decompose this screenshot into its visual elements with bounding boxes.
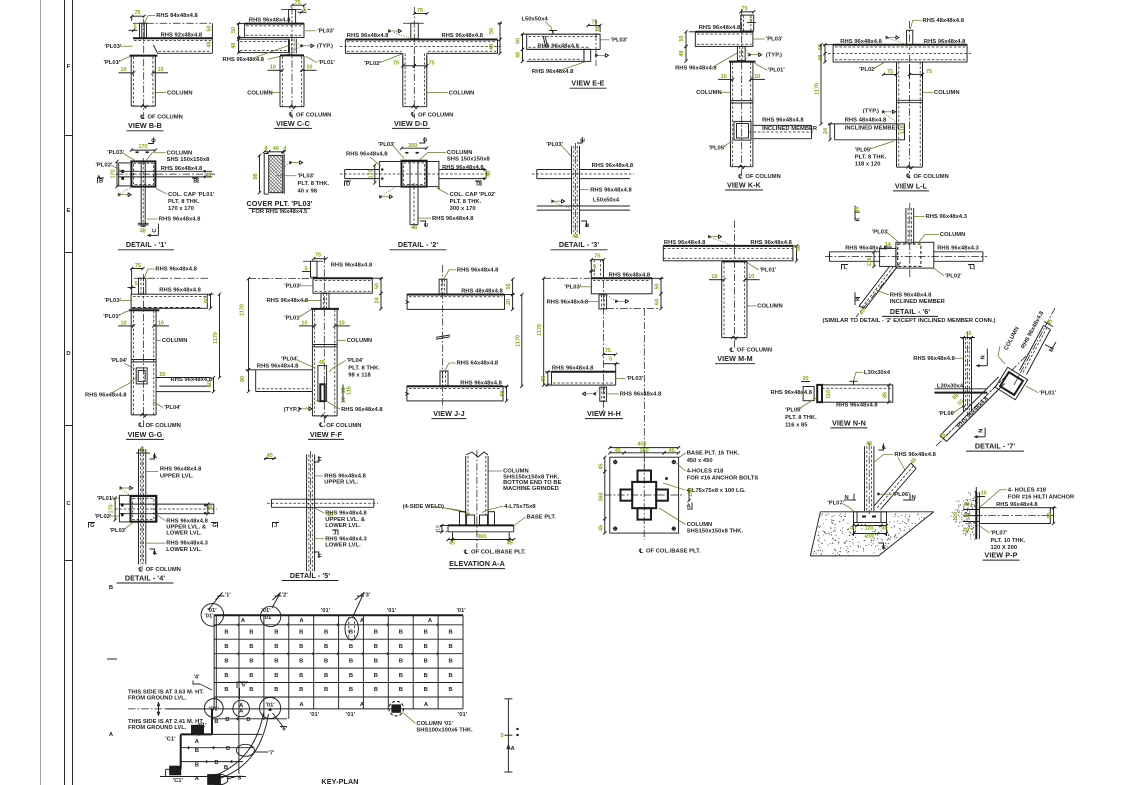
- svg-text:'PL02': 'PL02': [95, 514, 112, 520]
- view E-E centerline: [595, 20, 597, 66]
- svg-text:F: F: [153, 551, 159, 555]
- detail 1 left extension plate: [119, 163, 132, 186]
- view C-C column centerline: [291, 7, 293, 119]
- svg-text:75: 75: [741, 6, 747, 12]
- footing dims below: [853, 523, 855, 536]
- svg-text:98: 98: [500, 390, 506, 396]
- key plan internal horizontal lines: [214, 624, 463, 626]
- svg-text:B: B: [99, 178, 103, 184]
- detail 4 section flag G left: [89, 523, 96, 528]
- svg-text:'PL02': 'PL02': [96, 162, 113, 168]
- detail 4 section flag G right: [211, 523, 218, 528]
- view K-K stub between beam and cap: [737, 46, 745, 60]
- svg-text:OF COLUMN: OF COLUMN: [914, 174, 949, 180]
- svg-text:RHS 96x48x4.8: RHS 96x48x4.8: [432, 216, 474, 222]
- view G-G cap plate: [129, 309, 159, 311]
- svg-text:B: B: [349, 630, 353, 636]
- svg-text:RHS 96x48x4.8: RHS 96x48x4.8: [457, 268, 499, 274]
- svg-text:360: 360: [477, 534, 486, 540]
- detail 4 outer plate: [119, 495, 156, 522]
- svg-text:MACHINE GRINDED: MACHINE GRINDED: [503, 486, 559, 492]
- svg-text:LOWER LVL.: LOWER LVL.: [166, 531, 202, 537]
- svg-text:B: B: [299, 658, 303, 664]
- svg-text:'PL02': 'PL02': [945, 273, 962, 279]
- view C-C dim 5: [298, 11, 307, 13]
- footing flag P top: [879, 444, 884, 451]
- detail 1 beam to right: [155, 170, 212, 172]
- view C-C top beam RHS 96x48x4.8: [245, 24, 304, 38]
- detail 2 junction dots: [381, 168, 383, 170]
- view E-E upper beam: [527, 34, 600, 49]
- detail 2 vertical member through: [409, 161, 411, 187]
- view D-D purlin: [411, 23, 419, 39]
- view B-B beam bottom line: [158, 52, 213, 54]
- view E-E dim 75 top: [588, 24, 600, 26]
- svg-text:'PL05': 'PL05': [709, 146, 726, 152]
- plan dims 45 360 45 top: [610, 452, 624, 454]
- svg-text:H: H: [317, 457, 323, 461]
- svg-text:'PL03': 'PL03': [766, 37, 783, 43]
- view C-C beam hidden dashes: [246, 25, 303, 27]
- view B-B cap plate PL01: [130, 55, 158, 57]
- view C-C col stub between beams: [288, 39, 290, 54]
- view F-F column bottom break: [321, 414, 328, 418]
- view D-D dim 75 right below: [426, 56, 428, 68]
- view L-L dims 75 75 below beam: [896, 64, 898, 78]
- view M-M weld: [708, 235, 711, 238]
- view D-D weld: [388, 29, 391, 32]
- detail 3 vertical member: [571, 146, 573, 234]
- view M-M right dim 50: [793, 245, 799, 247]
- svg-text:RHS 96x48x4.8: RHS 96x48x4.8: [159, 217, 201, 223]
- svg-text:116 x 85: 116 x 85: [785, 422, 808, 428]
- border row tick y425: [65, 425, 73, 427]
- view M-M dim 10s: [709, 279, 724, 281]
- view D-D column centerline: [413, 7, 415, 119]
- svg-text:B: B: [299, 673, 303, 679]
- detail 2 beam left: [345, 169, 380, 171]
- svg-text:COL. CAP 'PL02': COL. CAP 'PL02': [450, 192, 497, 198]
- svg-text:48: 48: [140, 229, 146, 235]
- svg-text:UPPER LVL.: UPPER LVL.: [160, 474, 194, 480]
- svg-text:118: 118: [826, 390, 832, 399]
- svg-text:VIEW E-E: VIEW E-E: [571, 79, 604, 88]
- svg-text:75: 75: [428, 60, 434, 66]
- key plan wing vertical lines: [238, 709, 240, 774]
- key plan wing outline: [211, 709, 213, 735]
- svg-text:DETAIL - '1': DETAIL - '1': [126, 240, 166, 249]
- svg-text:B: B: [226, 746, 230, 752]
- detail 4 weld: [120, 486, 123, 489]
- svg-text:VIEW N-N: VIEW N-N: [832, 418, 866, 427]
- view F-F dim 10s: [299, 325, 315, 327]
- view L-L beam hidden dashes: [835, 46, 966, 48]
- key plan right edge: [462, 615, 464, 709]
- svg-text:4-HOLES #18: 4-HOLES #18: [687, 469, 724, 475]
- svg-text:'PL01': 'PL01': [103, 314, 120, 320]
- svg-text:G: G: [212, 523, 217, 529]
- detail 1 dim 170 left: [116, 161, 118, 186]
- elevation column centerline: [476, 450, 478, 548]
- view N-N angle tick: [850, 380, 858, 382]
- cover plate dim 98 left: [259, 155, 261, 192]
- svg-text:RHS 96x48x4.8: RHS 96x48x4.8: [159, 288, 201, 294]
- view H-H lower beam: [552, 371, 616, 373]
- svg-text:1170: 1170: [213, 332, 219, 344]
- svg-text:FROM GROUND LVL.: FROM GROUND LVL.: [128, 725, 187, 731]
- detail 4 section flag F top: [150, 453, 155, 459]
- svg-text:10: 10: [270, 65, 276, 71]
- svg-text:50: 50: [1047, 512, 1053, 518]
- svg-text:130: 130: [867, 257, 873, 266]
- svg-text:'PL03': 'PL03': [298, 173, 315, 179]
- svg-text:B: B: [424, 644, 428, 650]
- svg-text:RHS 96x48x4.8: RHS 96x48x4.8: [155, 267, 197, 273]
- svg-text:PLT. 8 THK.: PLT. 8 THK.: [168, 199, 200, 205]
- svg-text:VIEW D-D: VIEW D-D: [394, 119, 428, 128]
- detail 1 purlin cut marks: [136, 151, 139, 153]
- svg-text:45: 45: [598, 463, 604, 469]
- detail 3 weld: [552, 200, 555, 203]
- svg-text:10: 10: [341, 397, 347, 403]
- svg-text:B: B: [374, 644, 378, 650]
- view B-B beam hidden dashes: [134, 40, 211, 42]
- view G-G break: [132, 359, 156, 361]
- view J-J upper beam: [407, 294, 504, 296]
- svg-text:98 x 118: 98 x 118: [348, 372, 371, 378]
- view L-L dim 1170 vertical: [820, 45, 822, 124]
- svg-text:OF COLUMN: OF COLUMN: [737, 348, 772, 354]
- detail 4 column square: [131, 496, 157, 522]
- left margin dash: [107, 658, 117, 660]
- view K-K inclined member beam: [753, 124, 812, 126]
- detail 1 inner dashed square: [134, 163, 154, 184]
- svg-text:℄: ℄: [140, 114, 145, 121]
- detail 2 section flag D left: [345, 181, 352, 186]
- key plan black column node: [391, 704, 401, 712]
- detail 2 purlin cut marks: [405, 152, 408, 154]
- svg-text:4- HOLES #18: 4- HOLES #18: [1008, 487, 1047, 493]
- detail 1 section flag B right: [192, 178, 198, 183]
- svg-text:B: B: [249, 673, 253, 679]
- svg-text:B: B: [249, 658, 253, 664]
- view J-J right dims 50 20: [505, 294, 515, 296]
- svg-text:BASE PLT.: BASE PLT.: [527, 515, 557, 521]
- view M-M column bottom break: [731, 336, 738, 340]
- svg-text:45: 45: [319, 360, 325, 366]
- view L-L column bottom break: [907, 166, 914, 170]
- view G-G column: [130, 311, 132, 415]
- svg-text:B: B: [448, 673, 452, 679]
- svg-text:INCLINED MEMBER: INCLINED MEMBER: [890, 299, 946, 305]
- svg-text:J: J: [333, 531, 336, 537]
- view H-H centerline 1: [603, 281, 605, 415]
- svg-text:90: 90: [541, 375, 547, 381]
- view C-C dim 10 right: [302, 69, 317, 71]
- cover plate dims top 4 40 4: [264, 151, 269, 153]
- svg-text:COLUMN: COLUMN: [167, 151, 193, 157]
- view F-F side plates: [318, 366, 327, 402]
- view L-L dim 24 left: [828, 123, 835, 125]
- svg-text:COLUMN: COLUMN: [447, 150, 473, 156]
- view J-J upper purlin: [439, 279, 447, 294]
- svg-text:F: F: [67, 64, 71, 70]
- svg-text:45: 45: [327, 513, 333, 519]
- svg-text:COLUMN: COLUMN: [757, 304, 783, 310]
- detail 6 section flag K bottom: [854, 292, 856, 305]
- svg-text:'PL03': 'PL03': [317, 28, 334, 34]
- detail 6 section flag L right: [968, 265, 974, 270]
- view E-E weld: [595, 54, 598, 57]
- view F-F right dim 50: [372, 277, 383, 279]
- callout flag '1': [216, 593, 223, 601]
- svg-text:COVER PLT. 'PL03': COVER PLT. 'PL03': [246, 199, 312, 208]
- view K-K column bottom break: [739, 165, 746, 169]
- svg-text:10: 10: [711, 274, 717, 280]
- view L-L beam: [833, 44, 967, 46]
- svg-text:45: 45: [615, 448, 621, 454]
- svg-text:B: B: [324, 673, 328, 679]
- svg-text:B: B: [246, 717, 250, 723]
- svg-text:'01': '01': [387, 608, 397, 614]
- detail 5 vertical member: [306, 454, 308, 571]
- detail 2 section flag C bottom: [420, 221, 426, 227]
- key plan level arrow: [158, 702, 160, 716]
- svg-text:75: 75: [591, 20, 597, 26]
- view K-K beam: [695, 31, 753, 33]
- plan centerlines: [643, 450, 645, 540]
- svg-text:45: 45: [965, 331, 971, 337]
- svg-text:KEY-PLAN: KEY-PLAN: [321, 777, 358, 785]
- detail 6 column square dashed: [898, 244, 921, 266]
- svg-text:B: B: [424, 673, 428, 679]
- svg-text:B: B: [195, 748, 199, 754]
- svg-text:VIEW J-J: VIEW J-J: [433, 409, 465, 418]
- svg-text:75: 75: [926, 69, 932, 75]
- svg-text:℄: ℄: [638, 548, 643, 555]
- detail 2 section flag D right: [475, 181, 481, 186]
- detail 6 outer plate rect: [896, 242, 934, 268]
- svg-text:PLT. 8 THK.: PLT. 8 THK.: [348, 365, 380, 371]
- svg-text:48: 48: [205, 173, 211, 179]
- view B-B column centerline: [143, 19, 145, 119]
- detail 7 connection box rotated: [995, 367, 1028, 400]
- svg-text:B: B: [424, 658, 428, 664]
- svg-text:B: B: [249, 644, 253, 650]
- svg-text:SHS 150x150x8: SHS 150x150x8: [447, 156, 491, 162]
- view L-L left dims 50 48: [823, 44, 833, 46]
- svg-text:OF COLUMN: OF COLUMN: [746, 174, 781, 180]
- svg-text:'PL03': 'PL03': [564, 284, 581, 290]
- detail 6 inclined end: [859, 306, 865, 308]
- svg-text:'2': '2': [282, 592, 289, 598]
- svg-text:LOWER LVL.: LOWER LVL.: [166, 547, 202, 553]
- footing inclined end: [911, 463, 916, 469]
- svg-text:10: 10: [754, 74, 760, 80]
- svg-text:RHS 96x48x4.8: RHS 96x48x4.8: [160, 466, 202, 472]
- key plan wing horizontal lines: [212, 718, 287, 720]
- elevation dims below: [452, 533, 454, 543]
- svg-text:20: 20: [802, 376, 808, 382]
- svg-text:B: B: [424, 630, 428, 636]
- svg-text:'PL01': 'PL01': [1039, 390, 1056, 396]
- svg-text:B: B: [374, 658, 378, 664]
- svg-text:N: N: [978, 429, 984, 433]
- sheet border double frame lines: [64, 0, 66, 785]
- plan dot marker: [665, 477, 668, 480]
- svg-text:'PL04': 'PL04': [164, 405, 181, 411]
- svg-text:48: 48: [206, 505, 212, 511]
- svg-text:(TYP.): (TYP.): [317, 44, 333, 50]
- svg-text:115: 115: [346, 386, 352, 395]
- svg-text:'PL01': 'PL01': [104, 60, 121, 66]
- view M-M column: [721, 262, 723, 338]
- view F-F dim 1170 left: [248, 279, 250, 370]
- svg-text:RHS 96x48x4.8: RHS 96x48x4.8: [547, 299, 589, 305]
- view J-J upper beam left break: [406, 301, 409, 304]
- svg-text:SHS 150x150x8: SHS 150x150x8: [167, 157, 211, 163]
- svg-text:10: 10: [306, 65, 312, 71]
- svg-text:B: B: [274, 644, 278, 650]
- svg-text:RHS 96x48x4.8: RHS 96x48x4.8: [324, 474, 366, 480]
- svg-text:118: 118: [900, 125, 906, 134]
- view G-G dim 1170 right: [219, 294, 221, 377]
- view J-J dim 1170: [521, 295, 523, 387]
- view B-B column: [130, 57, 132, 107]
- svg-text:PLT. 10 THK.: PLT. 10 THK.: [991, 538, 1026, 544]
- detail 5 section flag J left: [273, 523, 280, 528]
- svg-text:(TYP.): (TYP.): [284, 407, 300, 413]
- plan dim 150 right: [688, 490, 690, 501]
- view G-G lower beam: [156, 377, 210, 379]
- svg-text:50: 50: [796, 245, 802, 251]
- view F-F dim 90 left: [246, 369, 256, 371]
- svg-text:B: B: [448, 630, 452, 636]
- svg-text:'C1': 'C1': [209, 706, 220, 712]
- svg-text:RHS 96x48x4.8: RHS 96x48x4.8: [341, 407, 383, 413]
- sheet border light inner line: [40, 0, 42, 785]
- elevation dim 16 left: [440, 524, 448, 526]
- svg-text:300 x 170: 300 x 170: [450, 206, 476, 212]
- svg-text:G: G: [90, 523, 95, 529]
- svg-text:RHS 96x48x4.8: RHS 96x48x4.8: [620, 392, 662, 398]
- svg-text:DETAIL - '3': DETAIL - '3': [559, 240, 599, 249]
- svg-text:E: E: [581, 138, 587, 142]
- view E-E angle tick on beam: [549, 30, 557, 32]
- svg-text:5: 5: [501, 733, 504, 739]
- svg-text:RHS 96x48x4.8: RHS 96x48x4.8: [840, 39, 882, 45]
- detail 6 section flag L left: [842, 265, 849, 270]
- view B-B dim 75: [132, 15, 145, 17]
- svg-text:B: B: [349, 673, 353, 679]
- svg-text:COLUMN: COLUMN: [167, 90, 193, 96]
- detail 1 section flag C top: [148, 138, 153, 144]
- svg-text:'PL02': 'PL02': [859, 67, 876, 73]
- view N-N dim 85 right: [888, 385, 890, 402]
- svg-text:75: 75: [135, 263, 141, 269]
- view N-N end plate: [817, 385, 822, 402]
- svg-text:RHS 84x48x4.8: RHS 84x48x4.8: [156, 13, 198, 19]
- detail 5 section flag H top: [314, 456, 319, 462]
- svg-text:10: 10: [158, 320, 164, 326]
- detail 7 section flag N top: [986, 349, 988, 366]
- key plan wing arrow marks: [197, 733, 199, 736]
- view F-F column centerline: [323, 256, 325, 428]
- view C-C left dim bracket: [237, 23, 245, 25]
- view D-D dim 75: [415, 13, 428, 15]
- elevation base angles: [460, 512, 466, 526]
- detail 3 horizontal beam: [537, 169, 572, 171]
- view K-K weld typ: [749, 53, 752, 56]
- svg-text:'5': '5': [240, 682, 247, 688]
- svg-text:B: B: [274, 687, 278, 693]
- svg-text:L: L: [970, 265, 974, 271]
- view B-B dim 10 right: [153, 72, 168, 74]
- view D-D beam right part: [427, 52, 498, 54]
- footing post: [864, 446, 866, 511]
- view H-H stub below beam: [599, 295, 607, 309]
- svg-text:5: 5: [596, 27, 599, 33]
- svg-text:B: B: [299, 630, 303, 636]
- svg-text:COL. CAP 'PL01': COL. CAP 'PL01': [168, 192, 215, 198]
- detail 2 weld: [379, 195, 382, 198]
- svg-text:B: B: [224, 658, 228, 664]
- plan base plate square: [610, 457, 679, 533]
- view M-M beam: [663, 245, 793, 247]
- svg-text:RHS 96x48x4.8: RHS 96x48x4.8: [331, 263, 373, 269]
- svg-text:48: 48: [489, 44, 495, 50]
- svg-text:10: 10: [339, 320, 345, 326]
- svg-text:COLUMN: COLUMN: [687, 522, 713, 528]
- view D-D column bottom break: [412, 105, 419, 109]
- view G-G dim 75: [132, 268, 143, 270]
- svg-text:75: 75: [315, 253, 321, 259]
- svg-text:45: 45: [855, 206, 861, 212]
- view E-E beam hidden dashes: [529, 35, 599, 37]
- detail 2 dim 300 top: [402, 147, 427, 149]
- svg-text:50: 50: [231, 27, 237, 33]
- plan column cross outline: [632, 482, 656, 508]
- detail 7 column lines upper right: [1020, 326, 1044, 371]
- detail 6 horizontal beam: [830, 251, 880, 253]
- view K-K top stub: [741, 15, 754, 31]
- view H-H dim 90 left: [545, 371, 552, 373]
- key plan ellipse callout '3': [345, 617, 358, 640]
- svg-text:40 x 98: 40 x 98: [298, 188, 318, 194]
- view G-G dim 10 right: [154, 325, 169, 327]
- svg-text:B: B: [274, 658, 278, 664]
- key plan bottom chord: [166, 708, 463, 710]
- svg-text:RHS 96x48x4.8: RHS 96x48x4.8: [347, 33, 389, 39]
- svg-text:RHS 96x48x4.8: RHS 96x48x4.8: [836, 402, 878, 408]
- svg-text:B: B: [274, 673, 278, 679]
- svg-text:D: D: [476, 181, 480, 187]
- svg-text:20: 20: [506, 299, 512, 305]
- svg-text:ELEVATION A-A: ELEVATION A-A: [449, 559, 505, 568]
- key plan callout '8': [209, 774, 228, 785]
- key plan callout '7': [236, 744, 254, 756]
- svg-text:50: 50: [679, 35, 685, 41]
- svg-text:40: 40: [881, 526, 887, 532]
- detail 1 vertical member through: [140, 161, 142, 226]
- svg-text:'01': '01': [456, 608, 466, 614]
- svg-text:24: 24: [823, 127, 829, 134]
- detail 4 vertical member: [138, 449, 140, 564]
- svg-text:50: 50: [159, 372, 165, 378]
- footing flag P bottom: [879, 543, 884, 550]
- view F-F beam: [313, 277, 372, 279]
- svg-text:'01': '01': [204, 614, 214, 620]
